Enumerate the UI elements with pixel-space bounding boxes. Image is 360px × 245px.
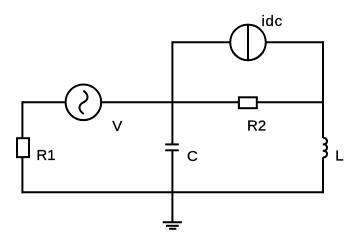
inductor L xyxy=(323,138,327,158)
wire: middle horizontal rail y=102.3 from left rail to right rail xyxy=(22,101,323,103)
svg-text:L: L xyxy=(335,148,343,165)
wire: center vertical from top rail down to capacitor top plate xyxy=(171,41,173,144)
svg-text:R1: R1 xyxy=(36,147,55,164)
wire: top horizontal rail y=42.2 xyxy=(172,41,323,43)
current source idc xyxy=(230,25,266,61)
wire: bottom horizontal rail y=192.3 xyxy=(21,191,324,193)
svg-text:C: C xyxy=(187,148,198,165)
wire: left vertical rail x=22.4 xyxy=(21,101,23,193)
wire: right vertical rail above inductor xyxy=(322,41,324,138)
resistor R1 xyxy=(17,138,29,157)
svg-text:R2: R2 xyxy=(247,118,266,135)
wire: right vertical rail below inductor xyxy=(322,157,324,193)
ground xyxy=(163,192,182,229)
resistor R2 xyxy=(239,97,257,108)
svg-text:idc: idc xyxy=(262,13,283,30)
svg-text:V: V xyxy=(112,118,122,135)
voltage source V xyxy=(66,85,102,121)
wire: center vertical from capacitor bottom plate to bottom rail xyxy=(171,150,173,192)
capacitor C xyxy=(165,144,179,150)
